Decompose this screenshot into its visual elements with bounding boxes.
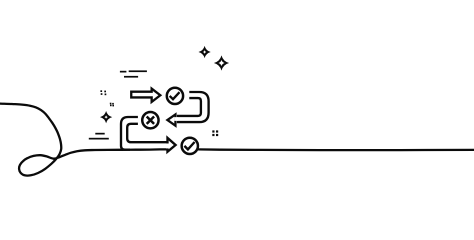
wire: continuous line left curve with cursive loop xyxy=(0,104,169,176)
arrowhead of left arrow (inner white) xyxy=(169,117,174,124)
sparkle S1 small xyxy=(199,46,211,58)
dash D1 top short xyxy=(120,71,127,73)
check circle C2 xyxy=(182,138,198,154)
arrowhead of bottom arrow (inner white) xyxy=(169,140,174,149)
bottom arrow channel opening xyxy=(166,143,169,148)
dot cluster X2 xyxy=(110,103,114,107)
arrowhead of top arrow A1 (inner white) xyxy=(153,91,159,100)
arrowhead of left arrow (outer black, end of route 1) xyxy=(165,112,176,128)
sparkle S2 large xyxy=(214,55,229,70)
route 1 inner edge xyxy=(177,98,201,116)
route 1 outer edge: check circle to left arrow U-turn xyxy=(177,92,209,122)
route 2 inner edge xyxy=(127,124,167,142)
dash D3 mid xyxy=(124,76,138,78)
dash D4 left short xyxy=(95,133,104,135)
checkmark in C1 xyxy=(170,92,180,99)
dot cluster X1 xyxy=(100,90,106,95)
dot cluster X3 xyxy=(212,130,218,136)
shaft of top arrow A1 xyxy=(130,91,152,99)
arrowhead of top arrow A1 (outer black) xyxy=(151,86,163,104)
dash D2 top long xyxy=(129,70,147,72)
left arrow channel opening xyxy=(174,117,177,121)
route 2 outer edge: X circle to bottom arrow xyxy=(121,117,138,150)
wire: continuous line right segment xyxy=(198,148,474,151)
arrowhead of bottom arrow (outer black) xyxy=(166,135,177,154)
x mark in CX xyxy=(147,117,154,124)
dash D5 left long xyxy=(89,138,109,140)
check circle C1 xyxy=(167,88,183,104)
sparkle S3 small left xyxy=(100,111,112,123)
X circle CX xyxy=(142,112,158,128)
checkmark in C2 xyxy=(184,142,194,149)
